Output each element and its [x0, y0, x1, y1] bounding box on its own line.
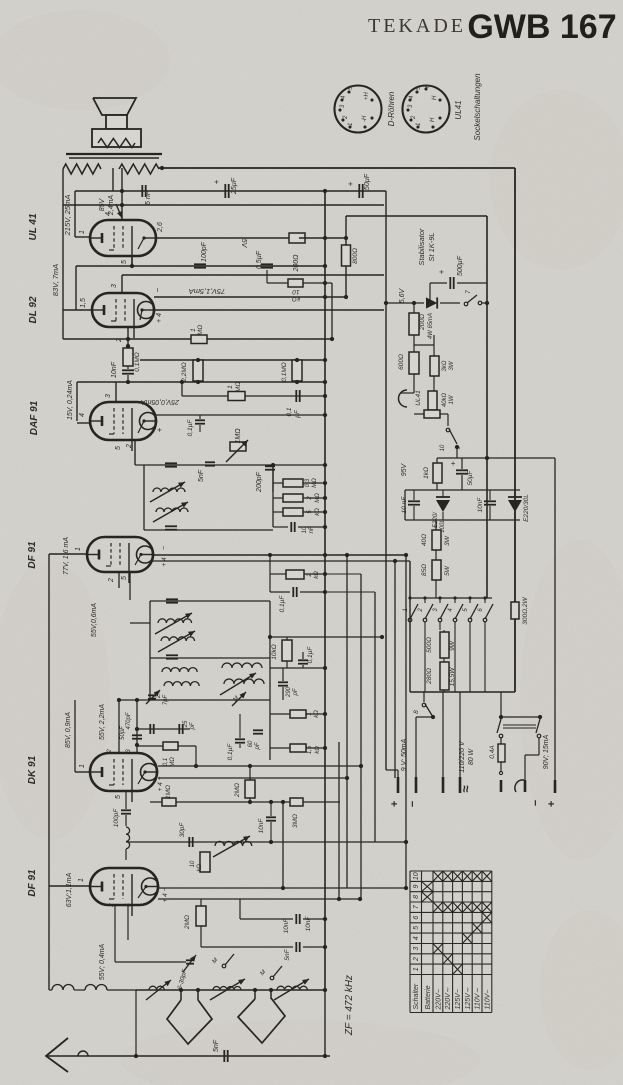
- svg-text:+: +: [389, 800, 401, 807]
- resistor 5k col: [283, 508, 303, 516]
- svg-text:-H: -H: [362, 115, 368, 122]
- svg-text:2: 2: [116, 338, 123, 343]
- svg-text:H: H: [430, 117, 436, 122]
- svg-text:110V∼: 110V∼: [475, 988, 482, 1010]
- wire y205: [63, 204, 384, 206]
- svg-text:15V, 0,24mA: 15V, 0,24mA: [67, 380, 74, 420]
- svg-text:MΩ: MΩ: [197, 325, 204, 335]
- svg-text:2,2MΩ: 2,2MΩ: [181, 362, 188, 382]
- wire bundle x361: [360, 574, 362, 899]
- wire bus x386: [385, 191, 387, 770]
- wire DL92 anode y297: [154, 296, 346, 298]
- svg-text:pF: pF: [293, 688, 299, 696]
- wire DAF91 pin3: [115, 382, 117, 402]
- antenna transformer coil left: [52, 985, 74, 991]
- capacitor 50pF: [150, 724, 153, 734]
- frame antenna 1 legs: [180, 990, 182, 1000]
- wire right bus x515: [514, 168, 516, 692]
- svg-text:40kΩ: 40kΩ: [442, 392, 448, 407]
- capacitor 10nF b: [239, 899, 241, 919]
- switch 3: [438, 618, 442, 622]
- pin arrow 4 UL41: [116, 204, 122, 218]
- svg-text:GWB 167: GWB 167: [467, 8, 616, 46]
- svg-text:3: 3: [111, 284, 118, 288]
- mixer coil arrow: [213, 836, 250, 857]
- svg-text:+: +: [546, 800, 558, 807]
- svg-text:1: 1: [227, 385, 234, 389]
- resistor 2k DF91: [286, 570, 304, 579]
- wire x76 drop: [75, 266, 77, 310]
- svg-text:200Ω: 200Ω: [293, 254, 300, 273]
- capacitor 5nF antenna: [224, 1050, 227, 1062]
- resistor 10k DK91: [200, 852, 210, 872]
- svg-text:3W: 3W: [449, 360, 455, 370]
- wire 500uF right: [457, 282, 487, 284]
- svg-text:25V,0,05mA: 25V,0,05mA: [141, 398, 180, 405]
- svg-text:2: 2: [418, 608, 424, 613]
- arrow variable 1M: [226, 440, 248, 462]
- wire y216: [346, 215, 487, 217]
- resistor bottom horizontal: [424, 410, 440, 418]
- resistor 0,3M: [283, 479, 303, 487]
- trimmer 2...7pF: [148, 695, 156, 698]
- terminal 9V plus: [397, 777, 400, 793]
- resistor 800 Ohm: [342, 245, 351, 266]
- wire y729: [137, 728, 190, 730]
- svg-text:3: 3: [413, 947, 420, 951]
- wire IF1 to bus: [273, 464, 325, 466]
- svg-text:220V−: 220V−: [435, 989, 442, 1010]
- wire top bus y168: [159, 167, 515, 169]
- terminal 90V plus bar: [554, 780, 557, 793]
- svg-text:10: 10: [440, 444, 446, 451]
- capacitor 10nF DK91: [266, 817, 276, 820]
- band coil 2: [213, 987, 241, 991]
- plug prong left: [500, 762, 502, 771]
- svg-text:2: 2: [411, 115, 417, 120]
- wire DF91 pin5 down: [129, 572, 131, 600]
- table X marks: [422, 871, 492, 975]
- svg-text:7: 7: [465, 290, 472, 294]
- socket D-Roehren pin numbers: [340, 86, 370, 126]
- svg-text:95V: 95V: [401, 462, 408, 476]
- osc coil D: [224, 679, 264, 684]
- svg-text:0,4A: 0,4A: [489, 745, 496, 758]
- svg-text:D-Röhren: D-Röhren: [387, 91, 396, 126]
- capacitor 10nF: [122, 370, 134, 373]
- svg-text:5: 5: [115, 795, 122, 799]
- power rail y520: [405, 519, 520, 521]
- svg-text:MΩ: MΩ: [235, 382, 242, 392]
- tube DK91: [90, 753, 158, 802]
- svg-text:1: 1: [79, 230, 86, 234]
- svg-text:DAF 91: DAF 91: [29, 400, 40, 435]
- loudspeaker resistor zigzag: [98, 139, 135, 148]
- svg-text:−: −: [161, 546, 168, 550]
- terminal 9V minus: [415, 777, 418, 793]
- DAF91 diode pin wire: [156, 414, 325, 416]
- svg-text:2: 2: [126, 444, 133, 449]
- capacitor 50uF power: [456, 470, 468, 473]
- switch 2: [423, 618, 427, 622]
- stub y592: [325, 591, 375, 593]
- resistor 40k 1W: [428, 391, 437, 410]
- sw5 down: [469, 630, 471, 692]
- svg-text:Sockelschaltungen: Sockelschaltungen: [473, 73, 482, 141]
- wire x113 drop: [112, 168, 114, 191]
- frame antenna 1: [167, 1000, 212, 1044]
- IF2 coil lower: [161, 637, 195, 641]
- wire main bus x325: [324, 190, 326, 992]
- svg-text:600Ω: 600Ω: [398, 354, 405, 370]
- svg-text:+: +: [451, 459, 456, 468]
- svg-text:+: +: [346, 181, 355, 186]
- wire bundle x375: [374, 592, 376, 842]
- svg-text:85V: 85V: [99, 197, 106, 211]
- resistor 2,2M: [193, 360, 203, 381]
- wire x332: [331, 283, 333, 338]
- wire DK91 pin1: [75, 771, 90, 773]
- svg-text:10: 10: [413, 872, 420, 880]
- svg-text:125V∼: 125V∼: [465, 987, 472, 1009]
- svg-text:77V, 1,6 mA: 77V, 1,6 mA: [63, 537, 70, 575]
- capacitor 200pF: [265, 466, 275, 469]
- svg-text:1: 1: [348, 123, 354, 126]
- svg-text:10: 10: [190, 860, 196, 867]
- wire y700 osc: [119, 699, 270, 701]
- wire y637 long: [270, 636, 384, 638]
- resistor 1k osc: [290, 710, 306, 718]
- svg-text:0,1µF: 0,1µF: [279, 595, 286, 613]
- resistor 2M DF91b: [200, 899, 202, 906]
- svg-text:0,1: 0,1: [163, 758, 169, 766]
- plug prong right: [538, 738, 540, 755]
- wire x75 DK91: [74, 700, 76, 772]
- wire x405: [404, 490, 406, 520]
- resistor 2M col: [283, 494, 303, 502]
- svg-text:5: 5: [115, 446, 122, 450]
- wire pin DL92 left: [63, 309, 92, 311]
- wire x122 tube top: [121, 168, 123, 221]
- svg-text:5V: 5V: [240, 239, 247, 249]
- wire DF91 pin2 down: [118, 572, 120, 588]
- svg-text:H: H: [432, 95, 438, 100]
- frame antenna 2: [238, 998, 285, 1043]
- svg-text:5nF: 5nF: [213, 1039, 220, 1052]
- svg-text:pF: pF: [190, 722, 196, 730]
- svg-text:1,5: 1,5: [80, 298, 87, 308]
- svg-text:ZF = 472 kHz: ZF = 472 kHz: [344, 975, 355, 1036]
- svg-text:25µF: 25µF: [231, 177, 238, 195]
- svg-text:DF 91: DF 91: [27, 541, 38, 569]
- svg-text:10 nF: 10 nF: [401, 496, 408, 514]
- wire y275: [122, 274, 384, 276]
- switch linkage: [503, 724, 536, 726]
- svg-text:1: 1: [75, 547, 82, 551]
- capacitor 100pF DK91: [121, 810, 131, 813]
- wire y668: [270, 667, 325, 669]
- terminal mains 2: [459, 692, 461, 777]
- wire pin1 UL41: [75, 236, 90, 238]
- wire 90V plus x555: [554, 458, 556, 780]
- svg-text:9 V; 50mA: 9 V; 50mA: [401, 738, 408, 771]
- band coil 1 arrow: [146, 980, 171, 1000]
- trimmer M arrow: [232, 692, 246, 706]
- capacitor 10nF col: [291, 522, 294, 532]
- loudspeaker cone: [93, 98, 136, 115]
- svg-text:60: 60: [248, 740, 254, 747]
- socket UL41 pin numbers: [408, 84, 438, 126]
- wire DF91b pin2 down: [114, 905, 116, 962]
- svg-text:63V;1,1mA: 63V;1,1mA: [66, 872, 73, 907]
- svg-text:5W: 5W: [444, 565, 451, 576]
- svg-text:1MΩ: 1MΩ: [165, 785, 172, 799]
- svg-text:5,6V: 5,6V: [399, 287, 406, 303]
- wire y396: [182, 395, 325, 397]
- svg-text:80 W: 80 W: [468, 747, 475, 765]
- svg-text:1MΩ: 1MΩ: [235, 428, 242, 444]
- svg-text:6: 6: [413, 916, 420, 920]
- resistor 0,1M DK91: [137, 745, 163, 747]
- svg-text:50pF: 50pF: [120, 726, 126, 740]
- IF1 coil lower: [156, 508, 188, 512]
- osc coil C: [222, 663, 262, 668]
- junction y842 x406: [404, 840, 408, 844]
- wire antenna coil to x136: [107, 989, 136, 991]
- svg-text:µF: µF: [294, 409, 301, 418]
- svg-text:9: 9: [413, 884, 420, 888]
- svg-text:5nF: 5nF: [198, 469, 205, 482]
- resistor 2M DK91 vertical: [245, 780, 255, 798]
- loudspeaker frame box: [92, 129, 141, 147]
- capacitor 5nF b: [200, 926, 202, 947]
- frame antenna 2 legs: [254, 990, 256, 999]
- terminal mains 1: [442, 692, 444, 777]
- svg-text:5: 5: [121, 260, 128, 264]
- wire antenna y1056: [46, 1055, 330, 1057]
- svg-text:500Ω: 500Ω: [426, 637, 433, 653]
- svg-text:8: 8: [413, 710, 420, 714]
- svg-text:DK 91: DK 91: [27, 755, 38, 784]
- svg-text:+H: +H: [364, 91, 370, 100]
- wire x283 down: [282, 802, 284, 888]
- svg-text:Stabilisator: Stabilisator: [417, 228, 426, 266]
- svg-text:MΩ: MΩ: [170, 757, 176, 767]
- capacitor 10nF p1: [408, 501, 420, 504]
- wire to x346: [299, 237, 346, 239]
- wire sw8 to terminal: [415, 717, 417, 777]
- power box left edge: [409, 561, 411, 692]
- svg-text:0,1MΩ: 0,1MΩ: [281, 362, 288, 381]
- IF2 cap top: [166, 599, 178, 602]
- svg-text:−: −: [530, 799, 542, 806]
- svg-text:0,1µF: 0,1µF: [187, 419, 194, 437]
- svg-text:3W: 3W: [444, 535, 451, 546]
- svg-text:TEKADE: TEKADE: [368, 15, 466, 37]
- svg-text:UL41: UL41: [454, 100, 463, 119]
- plug cable hook: [515, 780, 524, 792]
- antenna symbol: [46, 1038, 68, 1072]
- capacitor 0,1uF osc: [235, 739, 245, 742]
- wire IF1 right down: [272, 465, 274, 492]
- junction x325 y191: [323, 189, 327, 193]
- capacitor 10nF p2: [484, 501, 496, 504]
- wire DK91 pin2 riser: [118, 700, 120, 753]
- IF1 cap top: [165, 463, 177, 466]
- wire anode UL41 y238: [156, 237, 290, 239]
- svg-text:3MΩ: 3MΩ: [292, 814, 299, 828]
- capacitor 50uF electrolytic: [359, 184, 362, 198]
- svg-text:50µF: 50µF: [364, 173, 371, 190]
- svg-text:4W 65mA: 4W 65mA: [428, 313, 434, 339]
- heater UL41 symbol: [399, 390, 408, 407]
- svg-text:2...: 2...: [156, 690, 162, 699]
- resistor 0,1M vertical: [123, 348, 133, 366]
- wire DAF91 pin2 down: [134, 440, 136, 465]
- svg-text:E220/30L: E220/30L: [523, 494, 530, 522]
- svg-text:1: 1: [78, 878, 85, 882]
- svg-text:+ 4 −: + 4 −: [162, 887, 169, 902]
- mains switch pole 1: [499, 715, 503, 719]
- wire x75 to pin1: [74, 191, 76, 237]
- svg-text:83V, 7mA: 83V, 7mA: [51, 264, 60, 296]
- svg-text:10nF: 10nF: [258, 818, 265, 834]
- svg-text:200Ω: 200Ω: [419, 314, 426, 331]
- pin 2 DL92: [127, 327, 129, 348]
- svg-text:3kΩ: 3kΩ: [442, 360, 448, 371]
- svg-text:10nF: 10nF: [305, 916, 312, 932]
- svg-text:50µF: 50µF: [467, 470, 474, 486]
- resistor 500 Ohm 9W: [440, 632, 449, 658]
- svg-text:40Ω: 40Ω: [421, 534, 428, 546]
- svg-text:0,5µF: 0,5µF: [256, 250, 263, 269]
- svg-text:kΩ: kΩ: [315, 746, 321, 754]
- wire DK91 y778: [158, 777, 347, 779]
- tube DF91: [87, 537, 154, 583]
- switch 7: [464, 295, 477, 306]
- resistor 3M: [290, 798, 303, 806]
- svg-text:30pF: 30pF: [179, 822, 186, 838]
- svg-text:10: 10: [292, 288, 300, 295]
- sw4 down: [454, 630, 456, 692]
- capacitor 100pF: [194, 264, 206, 267]
- socket D-Roehren circle: [335, 86, 382, 133]
- wire y990 oscillator: [136, 989, 325, 991]
- svg-text:10kΩ: 10kΩ: [271, 644, 278, 659]
- rectifier E220 100L: [436, 500, 450, 512]
- resistor 280 Ohm 15,5W: [440, 662, 449, 690]
- IF2 coil arrow lower: [158, 631, 195, 652]
- switch 6: [483, 618, 487, 622]
- svg-text:2,4mA: 2,4mA: [108, 195, 115, 217]
- resistor 1M DAF91 grid: [230, 442, 246, 451]
- switch 4: [453, 618, 457, 622]
- svg-text:220V∼: 220V∼: [445, 987, 452, 1010]
- resistor 10k mid: [282, 640, 292, 661]
- wire antenna up: [324, 992, 326, 1056]
- wire bundle x395: [394, 561, 396, 778]
- wire bus x487: [486, 216, 488, 598]
- wire DF91b pin5 down: [127, 905, 129, 940]
- osc coil B: [164, 682, 199, 686]
- table row numbers: [413, 872, 420, 971]
- wire bundle x406: [405, 555, 407, 888]
- socket UL41 pins: [406, 87, 441, 128]
- svg-text:3: 3: [105, 394, 112, 398]
- svg-text:110V−: 110V−: [484, 990, 491, 1010]
- svg-text:0,1µF: 0,1µF: [307, 646, 314, 664]
- output resistor R-right zigzag: [119, 164, 159, 174]
- svg-text:85V, 0,9mA: 85V, 0,9mA: [65, 712, 72, 748]
- svg-text:4: 4: [413, 936, 420, 940]
- socket UL41 circle: [403, 86, 450, 133]
- tube DF91b: [90, 868, 159, 916]
- resistor 200 Ohm: [289, 233, 305, 243]
- svg-text:10nF: 10nF: [283, 918, 290, 934]
- band coil 2 arrow: [210, 979, 245, 1000]
- svg-text:2: 2: [343, 115, 349, 120]
- wire DL92 screen y310: [154, 309, 384, 311]
- svg-text:55V; 0,4mA: 55V; 0,4mA: [99, 943, 106, 980]
- svg-text:125V−: 125V−: [455, 989, 462, 1009]
- svg-text:1: 1: [416, 123, 422, 126]
- svg-text:+ 4 −: + 4 −: [157, 776, 164, 791]
- svg-text:4: 4: [79, 413, 86, 417]
- svg-text:10nF: 10nF: [477, 497, 484, 513]
- sw6 down: [484, 630, 486, 692]
- resistor 40 Ohm 3W: [432, 530, 441, 550]
- band coil 3: [277, 986, 307, 990]
- power box bottom: [410, 691, 515, 693]
- capacitor 0,1uF diode: [195, 420, 205, 423]
- svg-text:0,1µF: 0,1µF: [227, 743, 234, 761]
- svg-text:200pF: 200pF: [256, 471, 263, 493]
- output resistor R-left zigzag: [63, 164, 101, 174]
- wire bundle x347: [346, 555, 348, 888]
- pin 5 UL41 wire: [131, 256, 133, 266]
- svg-text:Batterie: Batterie: [425, 985, 432, 1009]
- wire DK91 y802: [150, 801, 340, 803]
- wire x63 to y339: [62, 310, 64, 339]
- resistor 300 Ohm 2W: [511, 602, 519, 619]
- antenna transformer coil right: [85, 985, 107, 991]
- junction x122 y191: [120, 189, 124, 193]
- wire DF91 pin1: [49, 553, 87, 555]
- power wiring top: [413, 374, 415, 393]
- svg-text:1,5: 1,5: [307, 745, 313, 754]
- IF2 coil upper: [158, 619, 192, 623]
- wire DF91 anode y555: [153, 554, 406, 556]
- svg-text:800Ω: 800Ω: [352, 248, 359, 264]
- wire 0,5uF to y283: [266, 270, 268, 283]
- svg-text:2: 2: [108, 903, 115, 908]
- sw2 down: [424, 630, 426, 692]
- socket D-Roehren pins: [338, 90, 373, 128]
- svg-text:pF: pF: [255, 742, 261, 750]
- osc coil D arrow: [220, 673, 256, 695]
- resistor 1k power: [433, 463, 442, 483]
- fuse 0,4A: [500, 692, 502, 717]
- junction pin5 UL41: [130, 264, 134, 268]
- trimmer 6-30pF: [183, 955, 196, 972]
- resistor 600 Ohm 4W: [409, 352, 419, 374]
- svg-text:85Ω: 85Ω: [421, 564, 428, 576]
- svg-text:1W: 1W: [449, 394, 455, 404]
- resistor 3k 3W: [430, 356, 439, 376]
- svg-text:5nF: 5nF: [284, 948, 291, 960]
- svg-text:1kΩ: 1kΩ: [423, 467, 430, 479]
- svg-text:280Ω: 280Ω: [426, 668, 433, 685]
